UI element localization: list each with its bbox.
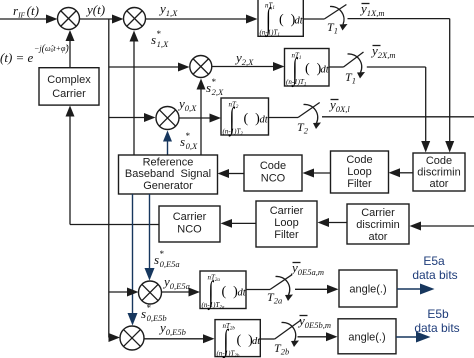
svg-text:Complex: Complex [47, 74, 91, 86]
svg-text:ator: ator [430, 178, 449, 190]
svg-text:ator: ator [369, 231, 388, 243]
svg-text:T2a: T2a [267, 290, 282, 306]
svg-text:∫: ∫ [291, 53, 298, 87]
wire s0X* blue from RBSG top to M4 [163, 131, 172, 156]
svg-text:( ): ( ) [237, 333, 254, 348]
wire M4 to integrator I3 [180, 114, 222, 123]
svg-text:Reference: Reference [143, 157, 194, 169]
wire carrier discr input from right edge [410, 222, 474, 231]
wire M3 to integrator I2 [212, 62, 285, 71]
svg-text:s*2,X: s*2,X [206, 77, 224, 97]
svg-text:discrimin: discrimin [356, 219, 399, 231]
svg-text:( ): ( ) [222, 285, 239, 300]
svg-text:NCO: NCO [261, 173, 286, 185]
svg-text:dt: dt [238, 288, 247, 299]
wire I1 to sampler S1 [303, 18, 324, 20]
integrator I4 [200, 271, 247, 311]
label y0E5b,m bar [297, 313, 331, 330]
svg-text:∫: ∫ [207, 276, 214, 310]
wire branch to M6 [109, 333, 121, 342]
integrator I2 [285, 49, 330, 88]
wire code NCO to RBSG [218, 169, 245, 178]
label y0X,l bar [328, 97, 350, 114]
multiplier M3 [190, 56, 212, 78]
svg-text:Code: Code [426, 155, 452, 167]
wire code loop filter to code NCO [303, 169, 331, 178]
svg-text:Carrier: Carrier [52, 88, 86, 100]
svg-text:Carrier: Carrier [361, 207, 395, 219]
svg-text:T1: T1 [345, 70, 356, 86]
wire I2 to sampler S2 [329, 66, 344, 68]
wire to angle2 [298, 332, 338, 341]
wire to angle1 [295, 285, 339, 294]
box code NCO [244, 155, 302, 191]
sampler S5 [274, 320, 301, 357]
svg-text:rIF(t): rIF(t) [13, 3, 39, 20]
svg-text:( ): ( ) [244, 112, 261, 127]
svg-text:T2b: T2b [274, 341, 289, 357]
box carrier loop filter [256, 201, 317, 247]
svg-text:Carrier: Carrier [173, 211, 207, 223]
wire y0X,l to right edge [322, 116, 474, 118]
box complex carrier [39, 68, 99, 105]
svg-text:y(t): y(t) [85, 2, 105, 17]
wire carrier NCO to complex carrier [66, 106, 160, 225]
sampler S2 [344, 52, 366, 86]
multiplier M5 [139, 281, 162, 304]
svg-text:dt: dt [260, 115, 269, 126]
svg-text:data bits: data bits [412, 268, 457, 282]
svg-text:angle(.): angle(.) [348, 332, 385, 344]
blue arrow E5a [397, 284, 435, 295]
svg-text:dt: dt [295, 16, 304, 27]
svg-text:∫: ∫ [228, 103, 235, 137]
wire y(t) vertical distribution [108, 19, 110, 338]
wire y1X M2 to integrator I1 [146, 15, 258, 24]
integrator I1 [258, 0, 304, 38]
integrator I5 [215, 320, 261, 358]
wire s2X* from RBSG top to M3 [197, 79, 206, 156]
svg-text:NCO: NCO [177, 224, 202, 236]
svg-text:T2: T2 [297, 120, 309, 136]
svg-text:y0,E5b: y0,E5b [158, 320, 186, 337]
sampler S1 [324, 5, 347, 36]
wire input rIF [0, 15, 58, 24]
sampler S4 [267, 275, 293, 306]
svg-text:Code: Code [260, 160, 286, 172]
svg-text:Filter: Filter [347, 178, 372, 190]
svg-text:Generator: Generator [143, 180, 193, 192]
label y2X,m bar [370, 43, 396, 60]
wire y(t) M1 to M2 [80, 15, 124, 24]
label E5a data bits [412, 254, 457, 282]
svg-text:Loop: Loop [274, 217, 298, 229]
multiplier M1 [58, 8, 80, 30]
svg-text:dt: dt [252, 336, 261, 347]
svg-text:Carrier: Carrier [270, 205, 304, 217]
box code discriminator [413, 153, 465, 191]
wire carrier loop filter to carrier NCO [221, 219, 257, 228]
wire branch to M3 [109, 63, 190, 72]
wire M6 to integrator I5 [144, 334, 215, 343]
label E5b data bits [414, 307, 459, 335]
multiplier M6 [120, 326, 144, 350]
svg-text:( ): ( ) [305, 62, 322, 77]
box angle2 [338, 319, 396, 354]
box code loop filter [331, 151, 389, 193]
wire branch to M4 [109, 113, 156, 122]
svg-text:Filter: Filter [274, 229, 299, 241]
svg-text:y0,E5a: y0,E5a [162, 274, 190, 291]
blue arrow E5b [396, 332, 431, 343]
svg-text:T1: T1 [327, 20, 338, 36]
svg-text:discrimin: discrimin [417, 167, 460, 179]
label y1X,m bar [359, 1, 385, 18]
wire I5 to sampler S5 [260, 338, 274, 340]
box angle1 [339, 270, 397, 307]
svg-text:(t) = e: (t) = e [0, 50, 34, 65]
wire s0,E5a blue from RBSG bottom to M5 [145, 194, 155, 281]
svg-text:s*0,X: s*0,X [180, 131, 198, 151]
integrator I3 [221, 98, 269, 137]
wire M5 to integrator I4 [162, 288, 200, 297]
svg-text:Code: Code [346, 154, 372, 166]
svg-text:E5b: E5b [427, 307, 449, 321]
svg-text:angle(.): angle(.) [349, 284, 386, 296]
svg-text:dt: dt [321, 65, 330, 76]
svg-text:data bits: data bits [414, 321, 459, 335]
wire y2X,m to code discriminator [367, 67, 430, 153]
wire I3 to sampler S3 [269, 117, 299, 119]
wire I4 to sampler S4 [246, 289, 270, 291]
box carrier NCO [159, 206, 220, 242]
wire branch to M5 [109, 288, 139, 297]
svg-text:s*0,E5a: s*0,E5a [154, 249, 180, 269]
svg-text:E5a: E5a [423, 254, 445, 268]
label y0E5a,m bar [290, 260, 324, 277]
wire s1X* from RBSG top to M2 [130, 31, 139, 156]
svg-text:y1,X: y1,X [158, 1, 178, 18]
svg-text:Loop: Loop [347, 166, 371, 178]
multiplier M4 [156, 107, 179, 130]
wire y1X,m to code discriminator [348, 19, 455, 153]
svg-text:−j(ω̂0t+φ̂): −j(ω̂0t+φ̂) [34, 44, 69, 55]
svg-text:∫: ∫ [265, 3, 272, 37]
wire complex carrier to M1 [66, 30, 75, 68]
sampler S3 [297, 103, 321, 136]
svg-text:s*1,X: s*1,X [151, 29, 169, 49]
box carrier discriminator [347, 204, 409, 244]
svg-text:y2,X: y2,X [234, 50, 254, 67]
multiplier M2 [124, 8, 146, 30]
wire code discriminator to code loop filter [389, 168, 414, 177]
svg-text:( ): ( ) [279, 13, 296, 28]
box reference baseband signal generator [119, 155, 218, 194]
wire carrier discriminator to carrier loop filter [318, 218, 348, 227]
svg-text:∫: ∫ [222, 325, 229, 358]
svg-text:Baseband Signal: Baseband Signal [125, 168, 211, 180]
svg-text:y0,X: y0,X [177, 96, 197, 113]
wire s0,E5b blue from RBSG bottom to M6 [128, 194, 138, 326]
